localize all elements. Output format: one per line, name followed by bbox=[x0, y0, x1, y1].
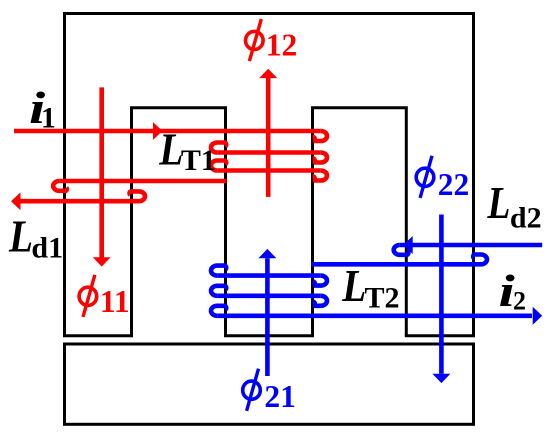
coil right loop 2 bbox=[313, 153, 327, 163]
wire i1 entry line bbox=[14, 129, 321, 134]
left leg bottom edge bbox=[63, 334, 133, 337]
arrowhead phi11 down bbox=[93, 257, 111, 266]
arrowhead i1 bbox=[153, 122, 163, 140]
label phi11 bbox=[79, 275, 97, 317]
coil turn line 2 bbox=[217, 150, 321, 155]
coil turn line 2 bbox=[217, 293, 321, 298]
coil left loop 2 bbox=[211, 161, 226, 171]
bottom I-bar bbox=[65, 344, 474, 424]
arrowhead phi21 up bbox=[258, 249, 276, 258]
arrowhead phi12 up bbox=[259, 69, 277, 78]
svg-text:L: L bbox=[8, 212, 33, 262]
label phi21 bbox=[243, 369, 261, 411]
center leg bottom edge bbox=[224, 334, 314, 337]
coil right loop 3 bbox=[313, 171, 327, 181]
coil right loop 1 bbox=[313, 131, 327, 141]
coil right loop 2 bbox=[313, 296, 327, 306]
svg-text:11: 11 bbox=[100, 284, 130, 319]
blue winding L_T2 group bbox=[211, 215, 542, 377]
coil left loop 2 bbox=[211, 286, 226, 296]
slot window left bbox=[132, 108, 226, 336]
svg-text:21: 21 bbox=[264, 379, 296, 414]
svg-text:T2: T2 bbox=[365, 282, 400, 315]
red winding L_T1 group bbox=[14, 78, 327, 258]
arrowhead L_d2 in bbox=[403, 236, 413, 254]
svg-text:L: L bbox=[158, 125, 183, 175]
wire exit line to left leg bbox=[59, 179, 226, 184]
wire i2 exit line bbox=[217, 313, 532, 318]
flux phi21 line bbox=[265, 258, 270, 376]
wire to coil line bbox=[311, 262, 481, 267]
core outer outline bbox=[63, 14, 475, 425]
label phi12 bbox=[246, 19, 264, 61]
leakage loop around left-leg right edge bbox=[130, 191, 145, 201]
slot window right bbox=[313, 108, 407, 336]
flux phi11 line bbox=[99, 87, 104, 257]
coil left loop 3 bbox=[211, 306, 226, 316]
coil turn line 1 bbox=[217, 273, 321, 278]
svg-text:L: L bbox=[341, 261, 366, 311]
flux phi12 line bbox=[266, 78, 271, 197]
svg-text:22: 22 bbox=[438, 167, 470, 202]
right leg bottom edge bbox=[405, 334, 475, 337]
label phi22 bbox=[416, 156, 434, 198]
coil left loop 1 bbox=[211, 143, 226, 153]
wire L_d2 entry line bbox=[400, 243, 543, 248]
wire L_d1 return line bbox=[20, 199, 139, 204]
coil turn line 3 bbox=[217, 168, 321, 173]
svg-text:d1: d1 bbox=[31, 232, 63, 265]
arrowhead phi22 down bbox=[432, 374, 450, 383]
svg-text:1: 1 bbox=[41, 102, 56, 135]
svg-text:d2: d2 bbox=[510, 202, 542, 235]
leakage loop around outer-left edge bbox=[53, 181, 67, 191]
coil left loop 1 bbox=[211, 266, 226, 276]
arrowhead i2 bbox=[533, 307, 543, 325]
leakage loop around outer-right edge bbox=[473, 255, 487, 265]
flux phi22 line bbox=[439, 215, 444, 374]
svg-text:L: L bbox=[487, 178, 511, 228]
arrowhead L_d1 out bbox=[11, 192, 21, 210]
svg-text:2: 2 bbox=[513, 286, 526, 315]
svg-text:T1: T1 bbox=[181, 144, 216, 177]
leakage loop around right-leg left edge bbox=[394, 245, 409, 255]
svg-text:12: 12 bbox=[266, 28, 298, 63]
coil right loop 1 bbox=[313, 276, 327, 286]
